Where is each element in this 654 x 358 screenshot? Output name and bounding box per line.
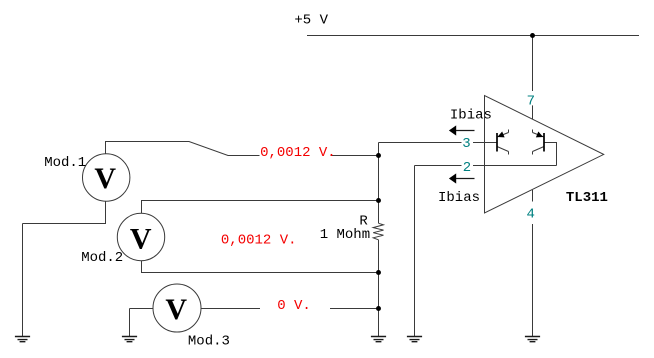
svg-text:1 Mohm: 1 Mohm: [320, 227, 370, 243]
svg-text:Mod.2: Mod.2: [81, 250, 123, 266]
svg-text:Mod.1: Mod.1: [44, 155, 86, 171]
svg-text:4: 4: [527, 207, 535, 223]
svg-text:0,0012 V.: 0,0012 V.: [221, 232, 297, 248]
svg-text:2: 2: [463, 160, 471, 176]
svg-text:V: V: [130, 222, 152, 255]
svg-text:7: 7: [527, 93, 535, 109]
svg-text:0 V.: 0 V.: [277, 298, 311, 314]
svg-text:V: V: [94, 162, 116, 195]
svg-text:Ibias: Ibias: [450, 107, 492, 123]
svg-text:+5 V: +5 V: [294, 13, 328, 29]
svg-text:Mod.3: Mod.3: [188, 333, 230, 349]
svg-text:0,0012 V.: 0,0012 V.: [260, 145, 336, 161]
svg-text:V: V: [165, 293, 187, 326]
svg-text:3: 3: [462, 136, 470, 152]
svg-text:TL311: TL311: [566, 190, 608, 206]
svg-text:Ibias: Ibias: [438, 190, 480, 206]
